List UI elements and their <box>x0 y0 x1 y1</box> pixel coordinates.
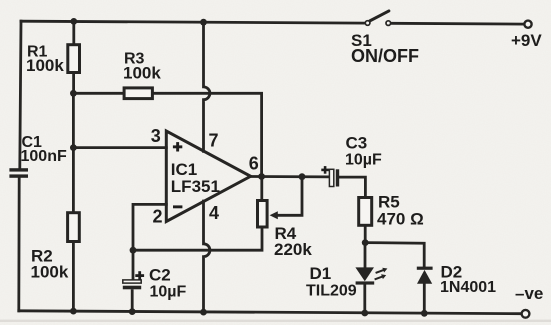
capacitor C3 left plate (open, +) <box>329 169 333 186</box>
wire node A to node B <box>72 93 75 147</box>
svg-text:C3: C3 <box>346 133 368 152</box>
svg-text:100k: 100k <box>123 64 161 83</box>
wire left supply line lower (C1 bottom to bottom rail) <box>17 178 20 311</box>
node dot R5/D1/D2 <box>362 239 369 246</box>
svg-text:2: 2 <box>153 206 163 226</box>
wire R1 bottom lead to node A <box>72 73 75 94</box>
node dot R2 on rail <box>70 308 77 315</box>
wire op-amp output <box>250 175 329 178</box>
wire switch to +9V terminal <box>391 22 524 26</box>
capacitor C1 bottom plate <box>9 174 28 177</box>
C3 plus sign <box>321 169 329 172</box>
node dot output junction <box>258 173 265 180</box>
switch S1 lever <box>370 11 389 21</box>
wire pin 7 from top rail with hop over feedback wire <box>204 22 210 151</box>
svg-text:TIL209: TIL209 <box>306 283 357 300</box>
wire pin 4 to bottom rail with hop over C2 wire <box>204 201 210 312</box>
wire left supply line upper (to C1 top plate) <box>20 21 21 168</box>
terminal +9V <box>524 21 531 28</box>
svg-text:470 Ω: 470 Ω <box>377 210 424 229</box>
svg-text:–ve: –ve <box>515 284 543 303</box>
op-amp plus sign <box>173 145 182 148</box>
wire R3 to feedback corner <box>152 93 262 176</box>
R4 wiper arrow head <box>270 211 278 219</box>
wire C3 to R5 <box>339 177 365 199</box>
switch S1 left contact <box>365 21 370 26</box>
node dot top rail / pin 7 <box>200 19 207 26</box>
wire R4 top lead <box>260 177 263 202</box>
op-amp IC1 triangle <box>166 131 250 222</box>
wire top rail <box>21 21 365 23</box>
D1 LED arrow 2 <box>375 274 387 279</box>
svg-text:4: 4 <box>209 203 219 223</box>
resistor R2 <box>68 213 80 242</box>
svg-text:7: 7 <box>209 131 219 151</box>
resistor R3 <box>124 88 152 99</box>
svg-text:100k: 100k <box>31 262 69 281</box>
wire D2 to rail <box>423 284 426 314</box>
svg-text:10µF: 10µF <box>345 151 382 168</box>
wire pin 2 to C2 node <box>133 204 166 250</box>
node dot D1 on rail <box>361 310 368 317</box>
resistor R5 <box>359 198 372 226</box>
wire C2 bottom lead <box>131 289 134 312</box>
C2 plus sign <box>135 274 144 277</box>
capacitor C3 right plate <box>336 169 339 186</box>
wire R5 bottom to node D <box>364 224 367 243</box>
node dot C2 on rail <box>129 308 136 315</box>
svg-text:LF351: LF351 <box>171 177 220 196</box>
svg-text:100nF: 100nF <box>21 148 67 165</box>
svg-text:D1: D1 <box>310 264 332 283</box>
node dot pin 4 on rail <box>200 309 207 316</box>
wire node B to R2 top <box>72 148 75 214</box>
svg-text:ON/OFF: ON/OFF <box>351 46 419 66</box>
wire R1 top lead <box>72 22 75 46</box>
svg-text:100k: 100k <box>26 56 64 75</box>
node dot pin2/C2/R4 <box>130 247 137 254</box>
capacitor C2 top plate (open, +) <box>123 280 141 283</box>
capacitor C1 top plate <box>9 168 28 171</box>
diode D2 triangle (pointing up) <box>417 270 432 284</box>
svg-text:3: 3 <box>151 126 161 146</box>
diode D2 cathode bar <box>417 267 433 270</box>
resistor R1 <box>68 45 80 73</box>
wire C2 top lead <box>132 250 135 280</box>
wire node D to D2 <box>365 243 424 267</box>
svg-text:+9V: +9V <box>511 31 542 50</box>
D1 LED arrow 1 <box>376 268 388 273</box>
resistor R4 (preset) <box>258 201 268 228</box>
svg-text:10µF: 10µF <box>150 284 187 301</box>
svg-text:1N4001: 1N4001 <box>440 279 496 296</box>
terminal -ve <box>522 310 530 318</box>
node dot wiper tap <box>299 173 306 180</box>
wire D1 cathode to rail <box>363 284 366 313</box>
node B dot <box>70 144 77 151</box>
diode D1 LED triangle <box>355 267 374 281</box>
svg-text:C2: C2 <box>149 266 171 285</box>
svg-text:220k: 220k <box>274 240 312 259</box>
wire node A to R3 <box>73 92 125 95</box>
node dot D2 on rail <box>421 310 428 317</box>
capacitor C2 bottom plate <box>123 286 141 290</box>
wire R4 bottom lead to C2 node <box>133 226 262 250</box>
wire R4 wiper tap <box>277 177 302 216</box>
wire R2 bottom to rail <box>72 241 75 312</box>
wire bottom rail <box>19 311 521 314</box>
node dot top rail / R1 <box>70 18 77 25</box>
switch S1 right contact <box>386 21 391 26</box>
wire node B to pin 3 <box>73 146 166 149</box>
scan streak bottom edge <box>0 320 551 322</box>
diode D1 cathode bar <box>356 281 375 284</box>
wire node D to D1 anode <box>364 243 367 268</box>
svg-text:6: 6 <box>249 154 259 174</box>
op-amp minus sign <box>173 205 182 208</box>
node A dot <box>70 90 77 97</box>
